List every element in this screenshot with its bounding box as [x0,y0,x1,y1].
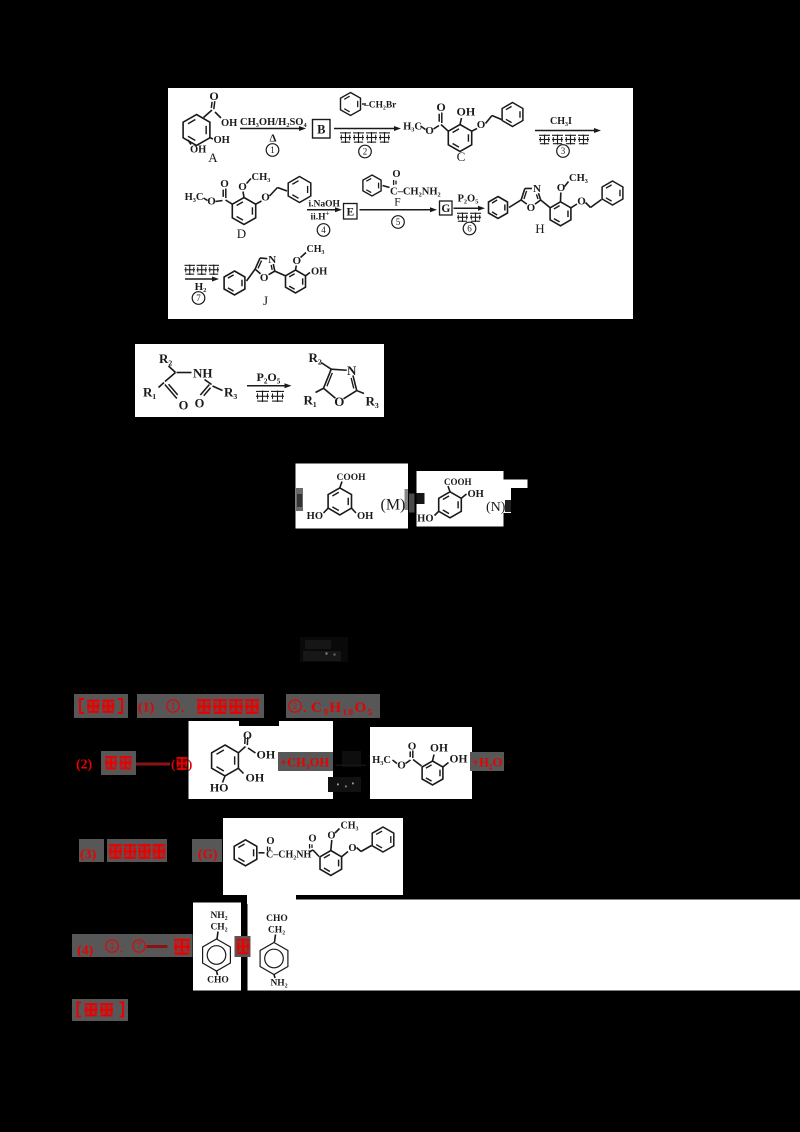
svg-text:OH: OH [190,145,206,156]
svg-text:+H₂O: +H₂O [472,756,503,770]
structure H O-benzyl [571,204,577,208]
dark red dash line4 [147,945,168,948]
svg-text:N: N [268,254,276,266]
mech amide carbonyl and R3 [205,380,212,385]
structure H bond phenyl-oxazole [509,200,521,208]
svg-text:4: 4 [321,225,326,235]
svg-text:O: O [348,843,356,854]
svg-text:1: 1 [110,941,115,951]
red reaction-type characters [197,699,211,714]
svg-text:(3): (3) [80,848,97,863]
svg-text:(1): (1) [138,701,155,716]
mech product R2 [321,363,331,370]
svg-text:.: . [181,700,184,715]
svg-text:R₃: R₃ [366,394,379,409]
faint remnant smudge [300,637,348,662]
arrow 6 pyridine text [457,212,468,214]
structure H benzyl ring [602,181,623,205]
svg-text:HO: HO [307,511,323,522]
svg-text:+CH₃OH: +CH₃OH [280,756,329,770]
dark glyph right of N [505,500,511,512]
boxed compound G [440,201,453,215]
boxed compound B [313,120,331,139]
svg-text:O: O [266,836,274,847]
svg-text:+: + [326,210,330,218]
svg-text:1: 1 [171,701,176,711]
svg-text:N: N [347,363,357,378]
structure F carbonyl and chain [383,186,390,188]
svg-text:A: A [208,150,218,165]
structure M OH [352,508,357,513]
svg-text:7: 7 [196,293,201,303]
svg-text:CH₃: CH₃ [307,244,325,255]
red circled 7 [133,940,145,952]
svg-text:R₂: R₂ [159,351,172,366]
svg-text:–CH₂Br: –CH₂Br [363,101,397,111]
structure H bond oxazole-central ring [541,200,551,208]
answer(2) reactant OH ortho [238,768,243,773]
dark mark inside N left edge [417,493,425,504]
structure N HO [435,511,439,515]
svg-text:O: O [207,196,216,208]
white panel: structure M image [296,464,409,529]
structure M HO [324,508,329,513]
svg-text:CH₃: CH₃ [569,173,588,184]
svg-text:O: O [238,181,247,193]
red circled 1 [167,700,179,712]
red +H2O with highlight [470,752,504,771]
svg-text:O: O [179,399,189,413]
red bracket answer heading [80,699,84,713]
svg-text:O: O [220,178,229,190]
svg-text:H₃C: H₃C [185,192,204,203]
white panel: answer(4) structure 1 [193,903,241,991]
red or-character between boxes [235,936,251,957]
svg-text:HO: HO [210,781,229,795]
structure H central benzene ring [550,202,571,226]
svg-text:D: D [237,226,246,241]
svg-text:G: G [441,203,450,215]
svg-text:OH: OH [468,489,484,500]
svg-text:O: O [436,100,445,114]
svg-text:CH₃: CH₃ [252,172,271,183]
svg-text:OH: OH [311,267,327,278]
gray remnants between M and N [405,489,409,510]
structure C ester group H3C-O-C=O [441,125,448,132]
red or-character [174,939,190,956]
svg-text:H₂: H₂ [195,281,208,293]
svg-text:R₂: R₂ [309,350,322,365]
answer(2) product ring [422,761,443,785]
structure F phenyl ring [363,175,381,196]
svg-text:O: O [327,831,335,842]
structure A benzene ring [183,115,210,146]
svg-text:OH: OH [214,135,230,146]
svg-text:): ) [188,757,192,772]
svg-text:H₃C: H₃C [403,122,422,133]
svg-text:C: C [457,149,466,164]
svg-text:CH₃: CH₃ [341,821,359,832]
dark red dash [136,763,170,766]
svg-text:CHO: CHO [266,914,288,924]
svg-text:O: O [334,394,344,409]
circled 7 [192,292,205,305]
circled 6 [463,222,476,235]
white panel: answer(2) left structure [189,721,334,799]
mech product R3 [357,391,364,394]
answer(2) reactant HO meta [223,776,226,783]
structure J OH [306,273,311,276]
white panel: main synthesis scheme image [168,88,633,319]
answer(4) structure 1 CHO [217,971,218,975]
structure G ketone [259,852,265,854]
structure A carboxyl C=O [204,110,213,118]
svg-text:O: O [425,125,434,137]
red circled 2 [289,700,301,712]
svg-text:(2): (2) [76,758,93,773]
structure G central ring [320,851,342,876]
circled 4 [317,224,330,237]
svg-text:C–CH₂NH: C–CH₂NH [266,850,311,861]
svg-text:NH: NH [193,366,213,381]
svg-text:OH: OH [450,754,468,766]
svg-text:.: . [303,700,306,715]
svg-text:O: O [308,834,316,845]
svg-text:7: 7 [137,941,142,951]
structure A OH ortho [210,138,213,139]
structure G phenyl ring [234,840,257,866]
svg-text:.: . [120,942,123,956]
structure A OH meta [188,140,191,145]
svg-text:OH: OH [221,118,237,129]
white panel: structure N image [417,471,504,527]
red line5 highlight [72,999,128,1021]
svg-text:CH₃OH/H₂SO₄: CH₃OH/H₂SO₄ [240,117,307,128]
red circled 1 [106,940,118,952]
svg-text:H₃C: H₃C [372,755,391,766]
svg-text:OH: OH [246,771,265,785]
structure N OH [461,494,466,498]
svg-text:O: O [209,89,218,103]
gray remnant left of M [296,488,303,511]
arrow 7 line [185,278,212,280]
svg-text:F: F [394,197,400,209]
svg-text:O: O [397,760,406,772]
arrow 3 condition text [539,134,550,136]
svg-text:(G): (G) [198,847,218,862]
structure H OCH3 [560,193,562,202]
svg-text:O: O [260,272,269,284]
svg-text:2: 2 [363,147,368,157]
white panel: answer(2) right structure [370,727,472,799]
red bracket analysis heading [78,1003,82,1017]
svg-text:(N): (N) [486,500,506,515]
structure D OCH3 top [243,192,244,198]
svg-text:OH: OH [357,511,373,522]
mech product R1 [316,388,324,392]
structure C benzene ring [448,125,471,152]
mech CH to NH bond [177,372,192,374]
white panel: answer(3) structure G [223,818,403,895]
svg-text:6: 6 [467,224,472,234]
red line4 highlight [72,934,193,957]
structure D benzene ring [232,198,255,225]
svg-text:ii.H: ii.H [311,213,327,223]
svg-text:H: H [535,221,544,236]
svg-text:P₂O₅: P₂O₅ [257,370,281,384]
mech product oxazole ring [324,388,336,398]
svg-text:HO: HO [417,514,433,525]
svg-text:O: O [243,730,252,742]
structure D benzyl ring [288,177,311,203]
structure J bond oxazole-central ring [275,271,286,276]
structure D ester group [226,200,233,204]
structure M COOH [340,482,342,488]
circled 3 [557,145,570,158]
svg-text:O: O [408,741,417,753]
svg-text:E: E [346,207,354,219]
svg-text:O: O [577,196,586,208]
svg-text:OH: OH [430,743,448,755]
structure J oxazole ring [255,269,260,274]
mech R1 and carbonyl [165,373,176,382]
structure A C-OH [215,112,221,118]
structure H phenyl ring [489,197,508,219]
svg-text:O: O [392,169,400,180]
svg-text:1: 1 [270,145,275,155]
structure C phenol OH [460,118,462,125]
red line2 highlight box [101,751,136,775]
svg-text:NH₂: NH₂ [270,979,287,989]
svg-text:COOH: COOH [444,477,472,487]
red line3 highlights [79,839,104,862]
svg-text:OH: OH [457,105,476,119]
svg-text:(4): (4) [77,944,94,959]
svg-text:COOH: COOH [337,473,367,483]
structure D O-benzyl [256,201,262,204]
svg-text:O: O [261,192,270,204]
svg-text:R₃: R₃ [224,385,237,400]
structure J bond phenyl-oxazole [247,269,256,281]
svg-text:O: O [557,182,566,194]
white panel: answer(4) structure 2 band [248,900,800,991]
arrow 2 benzylation: benzyl bromide ring [341,93,361,116]
answer(4) structure 2 ring [260,943,288,975]
svg-text:5: 5 [396,217,401,227]
structure N ring [439,492,462,518]
answer(4) structure 1 ring [203,939,231,971]
answer(4) structure 2 NH2 [274,975,275,979]
structure N COOH [448,486,450,492]
structure J central benzene ring [286,270,306,293]
svg-text:O: O [195,397,205,411]
svg-text:Δ: Δ [270,133,277,145]
arrow 2 condition text [340,132,351,134]
svg-text:CH₃I: CH₃I [550,116,572,127]
svg-text:O: O [527,202,536,214]
svg-text:N: N [533,183,541,195]
svg-text:CH₂: CH₂ [210,923,227,933]
answer(2) product OH top [433,755,435,762]
svg-text:2: 2 [293,701,298,711]
arrow 2 line [334,128,394,130]
svg-text:C₉H₁₀O₅: C₉H₁₀O₅ [311,700,374,716]
answer(2) reactant ring [212,745,239,776]
circled 1 [266,144,279,157]
answer(2) product OH right [443,763,449,768]
svg-text:J: J [263,293,268,308]
svg-text:R₁: R₁ [304,393,317,408]
answer(2) reactant COOH [238,747,245,753]
arrow 7 hydrogenation catalyst text [185,264,196,266]
white panel: oxazole formation mechanism image [135,344,384,417]
circled 2 [359,145,372,158]
svg-text:O: O [477,119,486,131]
svg-text:CHO: CHO [207,976,229,986]
svg-text:NH₂: NH₂ [210,911,227,921]
structure M ring [328,488,351,515]
svg-text:P₂O₅: P₂O₅ [458,194,479,205]
svg-text:OH: OH [257,748,276,762]
structure G OCH3 [331,840,332,851]
svg-text:3: 3 [561,146,566,156]
arrow 5 E to G [360,209,431,211]
structure H oxazole ring [521,200,527,204]
svg-text:CH₂: CH₂ [268,926,285,936]
red substitution-reaction characters [109,844,122,859]
structure G O-benzyl [342,852,348,857]
structure C O-benzyl [472,129,477,132]
svg-text:(: ( [171,757,175,772]
faint condition marks in black gap [342,751,361,767]
red answer line 1 highlight boxes [74,694,128,718]
structure J phenyl ring [224,271,245,295]
structure C benzyl ring [502,103,523,127]
structure J OCH3 [295,266,298,271]
svg-text:(M): (M) [381,497,406,514]
structure G benzyl ring [372,827,394,852]
svg-text:R₁: R₁ [143,385,156,400]
boxed compound E [344,204,358,220]
circled 5 [392,216,405,229]
red +CH3OH with highlight [278,752,333,771]
svg-text:B: B [317,123,325,137]
